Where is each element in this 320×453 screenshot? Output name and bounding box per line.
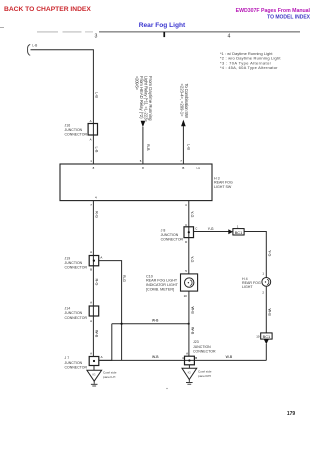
wire J23 to ground <box>188 365 190 369</box>
svg-text:W-B: W-B <box>152 355 159 359</box>
svg-text:L-B: L-B <box>32 44 37 48</box>
wire label W-B horizontal bus2 right <box>226 355 233 359</box>
wire label L-B <box>32 44 37 48</box>
ground cowl side panel RH <box>182 368 197 384</box>
svg-text:W-B: W-B <box>268 309 272 317</box>
svg-text:JUNCTION: JUNCTION <box>161 233 179 237</box>
svg-text:JUNCTION: JUNCTION <box>65 311 83 315</box>
svg-text:Y-G: Y-G <box>190 211 194 217</box>
svg-text:A: A <box>90 300 92 304</box>
svg-text:A: A <box>101 355 103 359</box>
pin A above J19 <box>90 250 92 254</box>
svg-text:J19: J19 <box>65 256 71 260</box>
ground bus 2 W-B <box>99 359 266 361</box>
junction connector J14 <box>89 306 99 316</box>
header EWD307F Pages From Manual <box>236 8 311 14</box>
svg-text:W-B: W-B <box>190 327 194 335</box>
continuation bracket <box>28 44 31 55</box>
svg-text:W-B: W-B <box>190 307 194 315</box>
svg-text:A: A <box>90 119 92 123</box>
junction dot bus1 x121 <box>121 323 123 325</box>
svg-text:Y-G: Y-G <box>208 227 214 231</box>
pin D below J8 <box>185 240 187 244</box>
svg-text:BC1: BC1 <box>235 230 243 235</box>
wire label R-B vertical <box>146 144 150 151</box>
pin A right of J19 <box>100 255 102 259</box>
wire label Y-G horizontal <box>208 227 214 231</box>
H3 label <box>214 176 233 188</box>
stray mark <box>166 388 167 389</box>
arrow to combination sw <box>181 120 186 127</box>
junction connector J7 <box>89 357 99 366</box>
svg-text:A: A <box>90 319 92 323</box>
top rule dashed left part <box>37 31 93 33</box>
legend notes <box>220 51 281 70</box>
section number 4 <box>228 34 231 40</box>
pin 1 above lamp <box>262 271 264 275</box>
section divider tick <box>163 32 165 37</box>
rear fog light switch H3 box <box>60 164 212 201</box>
svg-text:B: B <box>182 166 184 170</box>
J7 label <box>65 356 88 369</box>
pin 7 below box bottom left <box>90 203 92 207</box>
wire BC1 to rear fog light <box>244 232 266 278</box>
C10 label <box>146 274 179 291</box>
svg-text:CONNECTOR: CONNECTOR <box>65 316 88 320</box>
svg-text:JUNCTION: JUNCTION <box>65 128 83 132</box>
pin B right of J23 <box>195 356 197 360</box>
pin 10 left of lower BC1 <box>256 335 260 339</box>
svg-text:J23: J23 <box>193 340 199 344</box>
svg-text:L-B: L-B <box>94 147 98 153</box>
svg-text:R-B: R-B <box>146 144 150 151</box>
wire switch to J19 J14 J7 <box>92 201 94 357</box>
svg-text:A: A <box>90 351 92 355</box>
connector BC1 <box>233 229 244 235</box>
svg-text:CONNECTOR: CONNECTOR <box>65 365 88 369</box>
svg-text:W-B: W-B <box>152 319 159 323</box>
ground bus 1 W-B <box>112 323 189 325</box>
pin A above J14 <box>90 300 92 304</box>
wire label L-B vertical <box>94 147 98 153</box>
svg-text:LH: LH <box>197 166 201 170</box>
pin A right of J7 <box>101 355 103 359</box>
J14 label <box>65 307 88 320</box>
svg-text:J 8: J 8 <box>161 228 166 232</box>
pin A above J16 <box>90 119 92 123</box>
svg-text:LIGHT: LIGHT <box>242 285 253 289</box>
connector BC1 lower arrow <box>264 339 269 344</box>
svg-text:LIGHT SW: LIGHT SW <box>214 185 232 189</box>
rear fog light H4 lamp <box>262 278 271 287</box>
svg-text:J14: J14 <box>65 307 71 311</box>
svg-text:W-B: W-B <box>226 355 233 359</box>
svg-text:*4 : 45A, 60A Type Alternator: *4 : 45A, 60A Type Alternator <box>220 65 278 70</box>
junction connector J8 <box>184 227 194 238</box>
svg-text:D: D <box>185 240 187 244</box>
pin 4 below switch right wire <box>185 203 187 207</box>
svg-text:Y-G: Y-G <box>190 256 194 262</box>
svg-text:BC1: BC1 <box>263 334 271 339</box>
wire relay to switch <box>142 127 144 164</box>
pin 5 above meter box <box>185 269 187 273</box>
svg-text:<223-4>, <209-1>: <223-4>, <209-1> <box>180 84 185 117</box>
wire label Y-G vertical below J8 <box>190 256 194 262</box>
rear fog light indicator lamp <box>185 278 194 287</box>
pin A above J23 <box>186 352 188 356</box>
svg-text:<209-5>: <209-5> <box>134 76 139 90</box>
svg-text:J 7: J 7 <box>65 356 70 360</box>
to combination sw note (rotated) <box>180 84 190 119</box>
arrow from relay <box>141 121 146 127</box>
header link BACK TO CHAPTER INDEX <box>4 6 91 13</box>
pin 4 left of J23 <box>182 356 184 360</box>
pin C right of J8 <box>195 227 197 231</box>
wire label Y-G vertical <box>190 211 194 217</box>
wire label W-B horizontal <box>152 319 159 323</box>
svg-text:CONNECTOR: CONNECTOR <box>65 266 88 270</box>
pin below edge right <box>182 166 184 170</box>
pin 10 below meter <box>184 294 188 298</box>
J16 label <box>65 123 88 136</box>
svg-text:BACK TO CHAPTER INDEX: BACK TO CHAPTER INDEX <box>4 6 91 13</box>
wire lamp to connector <box>265 286 267 333</box>
pin A above J7 <box>90 351 92 355</box>
ground label LH <box>103 371 117 379</box>
wire connector to ground bus <box>265 344 267 360</box>
svg-text:JUNCTION: JUNCTION <box>65 361 83 365</box>
svg-text:JUNCTION: JUNCTION <box>65 261 83 265</box>
wire switch to J8 to meter <box>188 201 190 274</box>
svg-text:panel LH: panel LH <box>103 375 115 379</box>
wire combination sw to switch <box>182 126 184 164</box>
svg-text:B: B <box>90 268 92 272</box>
wire label R-G vertical <box>94 211 98 218</box>
wire J8 to connector BC1 <box>194 231 229 233</box>
wire J7 to ground bus riser <box>99 324 112 361</box>
wire label R-G vertical left column <box>94 279 98 286</box>
J23 label <box>193 340 216 353</box>
pin A below J16 <box>90 138 92 142</box>
svg-text:A: A <box>90 250 92 254</box>
pin 7 at switch top right wire <box>180 159 182 163</box>
wire J19 branch to ground bus <box>99 261 122 361</box>
svg-text:10: 10 <box>184 294 188 298</box>
top rule solid part <box>99 31 300 33</box>
pin LH inside box <box>197 166 201 170</box>
junction connector J16 <box>88 124 97 136</box>
svg-text:C: C <box>195 227 197 231</box>
svg-text:TO MODEL INDEX: TO MODEL INDEX <box>267 14 311 20</box>
wire label W-B vertical <box>190 307 194 315</box>
from daytime running light relay note (rotated) <box>134 76 153 123</box>
svg-text:A: A <box>90 138 92 142</box>
J8 label <box>161 228 184 241</box>
page edge tick <box>0 27 4 29</box>
section number 3 <box>95 34 98 40</box>
svg-text:3: 3 <box>95 34 98 40</box>
ground label RH <box>198 370 212 378</box>
wire label R-G vertical <box>122 275 126 282</box>
H4 label <box>242 277 261 289</box>
svg-text:EWD307F Pages From Manual: EWD307F Pages From Manual <box>236 8 311 14</box>
pin 5 at switch top middle wire <box>140 159 142 163</box>
svg-text:[COMB. METER]: [COMB. METER] <box>146 287 174 291</box>
J19 label <box>65 256 88 269</box>
pin 4 inside box bottom left <box>95 196 97 200</box>
wire J7 to ground <box>93 366 95 371</box>
svg-text:Rear Fog Light: Rear Fog Light <box>139 22 186 29</box>
wire label L-B vertical <box>186 144 190 150</box>
svg-text:179: 179 <box>287 411 296 417</box>
wire label L-B vertical <box>94 92 98 98</box>
wire label W-B vertical <box>268 309 272 317</box>
svg-text:R-G: R-G <box>94 279 98 286</box>
pin B below J19 <box>90 268 92 272</box>
svg-text:Y-G: Y-G <box>268 250 272 256</box>
svg-text:panel RH: panel RH <box>198 374 211 378</box>
header TO MODEL INDEX <box>267 14 311 20</box>
svg-text:4: 4 <box>228 34 231 40</box>
ground cowl side panel LH <box>87 370 102 386</box>
svg-text:B: B <box>195 356 197 360</box>
svg-text:A: A <box>186 352 188 356</box>
svg-text:CONNECTOR: CONNECTOR <box>161 238 184 242</box>
svg-text:CONNECTOR: CONNECTOR <box>193 349 216 353</box>
svg-text:10: 10 <box>256 335 260 339</box>
connector BC1 lower <box>261 333 272 339</box>
wire label W-B horizontal bus2 left <box>152 355 159 359</box>
pin C above J8 <box>185 223 187 227</box>
wire label W-B vertical above J23 <box>190 327 194 335</box>
svg-text:R-G: R-G <box>122 275 126 282</box>
svg-text:A: A <box>100 255 102 259</box>
wire label W-B vertical <box>94 330 98 338</box>
title Rear Fog Light <box>139 22 186 29</box>
connector BC1 male arrow <box>228 229 233 234</box>
wire from bracket to switch pin <box>31 50 94 164</box>
svg-text:J16: J16 <box>65 123 71 127</box>
junction dot bus1 x188 <box>188 323 190 325</box>
junction connector J23 <box>185 356 195 365</box>
svg-text:W-B: W-B <box>94 330 98 338</box>
junction connector J19 <box>89 256 99 266</box>
svg-text:L-B: L-B <box>94 92 98 98</box>
pin 2 below lamp <box>262 290 264 294</box>
pin 1 above BC1 <box>237 224 239 228</box>
wire label Y-G vertical <box>268 250 272 256</box>
page number 179 <box>287 411 296 417</box>
wire meter to ground bus <box>188 291 190 356</box>
svg-text:JUNCTION: JUNCTION <box>193 345 211 349</box>
pin below edge middle <box>142 166 144 170</box>
pin 1 at switch top left wire <box>90 159 92 163</box>
pin 8 below switch top edge <box>93 166 95 170</box>
pin A below J14 <box>90 319 92 323</box>
svg-text:L-B: L-B <box>186 144 190 150</box>
combination meter C10 box <box>181 274 198 291</box>
svg-text:R-G: R-G <box>94 211 98 218</box>
svg-text:CONNECTOR: CONNECTOR <box>65 133 88 137</box>
